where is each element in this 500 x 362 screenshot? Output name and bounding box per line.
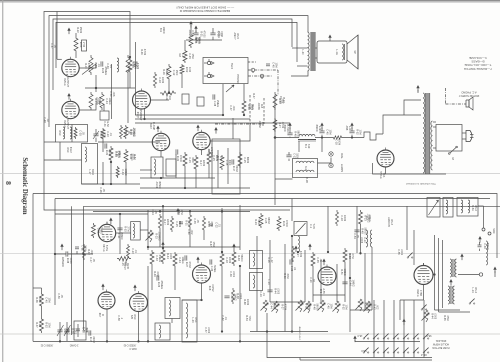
- arrow ant: [479, 238, 481, 243]
- svg-text:98-0: 98-0: [426, 334, 432, 337]
- svg-text:OB-3: OB-3: [420, 353, 426, 356]
- svg-text:.27MEG: .27MEG: [132, 127, 135, 136]
- wire bus top line 1: [44, 12, 290, 211]
- wire: [354, 340, 356, 342]
- svg-text:1MEG: 1MEG: [198, 36, 201, 43]
- B+ arrow: [321, 124, 323, 129]
- remote dash-dot wire 2: [248, 75, 272, 77]
- svg-text:C-57: C-57: [204, 327, 207, 333]
- svg-text:47000: 47000: [130, 154, 133, 162]
- wire: [239, 266, 241, 341]
- svg-text:.0005: .0005: [169, 253, 172, 260]
- svg-text:JMW50? 41-0: JMW50? 41-0: [298, 326, 300, 340]
- B+ arrow pushbutton: [403, 320, 405, 325]
- resistor R-18: [160, 91, 176, 95]
- svg-text:C-58: C-58: [117, 315, 120, 321]
- svg-text:6J5: 6J5: [130, 315, 133, 320]
- svg-text:R-48: R-48: [313, 304, 316, 310]
- svg-text:R-24: R-24: [254, 219, 257, 225]
- svg-text:R-50: R-50: [283, 273, 286, 279]
- output terminal right: [479, 273, 482, 276]
- osc coil can lower 2: [182, 300, 197, 342]
- svg-text:Schematic Diagram: Schematic Diagram: [21, 157, 28, 215]
- svg-text:470M: 470M: [188, 261, 191, 267]
- junction: [434, 274, 436, 276]
- junction: [102, 183, 104, 185]
- wire: [292, 47, 308, 49]
- svg-text:PHONO: PHONO: [236, 74, 239, 83]
- junction: [106, 341, 108, 343]
- svg-text:1MEG: 1MEG: [343, 268, 346, 275]
- tone control enclosure box: [212, 139, 240, 194]
- svg-text:TUN: TUN: [312, 223, 315, 228]
- resistor R-45: [126, 55, 130, 75]
- svg-text:220M: 220M: [166, 219, 169, 225]
- wire: [171, 319, 173, 324]
- wire: [297, 65, 308, 67]
- resistor R-63: [220, 252, 224, 268]
- capacitor C-77: [267, 289, 272, 291]
- dial lamp I1: [329, 152, 333, 156]
- svg-text:C-14: C-14: [151, 209, 154, 215]
- wire: [291, 199, 293, 211]
- oscillator padder box: [74, 321, 86, 340]
- fold line 1: [0, 173, 500, 175]
- svg-text:.1M: .1M: [38, 323, 41, 327]
- dial lamp I2: [329, 163, 333, 167]
- remote dash-dot wire: [248, 69, 278, 71]
- svg-text:.01: .01: [224, 316, 227, 320]
- svg-text:.01: .01: [217, 223, 220, 227]
- wire rectifier to bus: [385, 167, 387, 174]
- pot R-9: [298, 300, 302, 312]
- junction: [327, 251, 329, 253]
- junction: [221, 331, 223, 333]
- svg-text:R-17: R-17: [199, 160, 202, 166]
- svg-text:C-45: C-45: [188, 53, 191, 59]
- svg-text:.0001: .0001: [400, 249, 403, 256]
- B+ arrow: [190, 23, 192, 28]
- electrolytic capacitor: [82, 40, 87, 51]
- svg-text:C-19: C-19: [259, 291, 262, 297]
- svg-text:.004: .004: [232, 106, 235, 111]
- svg-text:C-37: C-37: [229, 105, 232, 111]
- capacitor C10: [286, 154, 291, 156]
- trimmer capacitor: [95, 129, 97, 134]
- capacitor C-71: [104, 143, 106, 148]
- svg-text:MOTOR SUPPLY: MOTOR SUPPLY: [459, 94, 480, 98]
- junction: [201, 299, 203, 301]
- svg-text:6A8: 6A8: [208, 286, 211, 291]
- phono input box: [203, 58, 248, 84]
- wire: [125, 164, 127, 184]
- svg-text:4.7: 4.7: [248, 105, 251, 109]
- speaker frame: [317, 41, 347, 63]
- wire: [364, 253, 366, 310]
- capacitor C17: [64, 329, 69, 331]
- junction: [144, 118, 146, 120]
- svg-text:C-35: C-35: [316, 257, 319, 263]
- svg-text:15M: 15M: [191, 54, 194, 59]
- junction: [168, 92, 170, 94]
- capacitor C-40: [184, 255, 186, 260]
- svg-text:R-42: R-42: [165, 95, 168, 101]
- svg-text:REMOTE CONNECTION MARKED R: REMOTE CONNECTION MARKED R: [179, 9, 230, 13]
- capacitor C7: [287, 132, 292, 134]
- wire rectifier filament: [373, 163, 446, 174]
- capacitor C-84: [209, 223, 213, 225]
- switch S2 wafer: [421, 309, 422, 310]
- osc coil can lower: [165, 298, 180, 319]
- grid cap wire: [423, 263, 425, 266]
- tube V7 6A8 converter: [193, 265, 211, 283]
- ant coil can lower: [155, 323, 170, 340]
- wire: [232, 118, 234, 139]
- svg-text:25M: 25M: [446, 316, 449, 321]
- svg-text:OS-2: OS-2: [474, 205, 477, 211]
- resistor R-6: [332, 136, 343, 139]
- wire: [304, 250, 306, 302]
- osc coil: [63, 127, 65, 139]
- svg-text:R-27: R-27: [133, 63, 136, 69]
- svg-text:COMB: COMB: [95, 97, 98, 105]
- bottom bus wire: [33, 340, 330, 342]
- svg-text:.05: .05: [92, 258, 95, 262]
- B+ arrow IF: [461, 255, 463, 260]
- svg-text:JWW200: JWW200: [61, 257, 64, 268]
- capacitor C-78: [342, 281, 347, 283]
- svg-text:470M: 470M: [143, 49, 146, 55]
- wire: [144, 109, 146, 120]
- svg-text:R-19: R-19: [84, 63, 87, 69]
- wire: [135, 122, 290, 124]
- wire: [217, 150, 219, 188]
- wire: [267, 313, 432, 358]
- wire: [413, 230, 415, 265]
- B+ arrow IF 2: [450, 281, 452, 286]
- wire: [159, 230, 161, 247]
- svg-text:50M: 50M: [257, 220, 260, 225]
- junction: [95, 87, 97, 89]
- svg-text:.05: .05: [53, 44, 56, 48]
- capacitor C-80: [266, 63, 270, 65]
- svg-text:SP: SP: [353, 50, 356, 54]
- resistor R-39: [180, 64, 184, 75]
- tube V1 6V6-G output: [62, 59, 79, 76]
- svg-text:.002: .002: [90, 250, 93, 255]
- remote R circle 2: [260, 74, 264, 78]
- output transformer T1 primary: [308, 32, 310, 71]
- svg-text:1MFD: 1MFD: [162, 27, 165, 34]
- wire: [79, 104, 96, 110]
- svg-text:.01: .01: [97, 63, 100, 67]
- svg-text:.00025: .00025: [188, 29, 191, 37]
- junction: [291, 331, 293, 333]
- antenna coil far right: [486, 241, 488, 265]
- svg-text:R-65: R-65: [443, 315, 446, 321]
- resistor R-82: [83, 244, 86, 260]
- svg-text:R-8: R-8: [260, 104, 263, 109]
- svg-text:R-52: R-52: [45, 322, 48, 328]
- svg-text:G-52: G-52: [106, 121, 109, 127]
- svg-text:.05: .05: [319, 258, 322, 262]
- capacitor C2: [210, 32, 215, 34]
- svg-text:R-52: R-52: [342, 304, 345, 310]
- svg-text:470M: 470M: [136, 63, 139, 69]
- svg-text:C-45: C-45: [327, 303, 330, 309]
- svg-text:C-28: C-28: [97, 228, 100, 234]
- svg-text:HOLLIS HSFW: HOLLIS HSFW: [432, 342, 449, 345]
- svg-text:L-20: L-20: [301, 49, 304, 55]
- capacitor C7-8: [212, 28, 214, 33]
- resistor R-60: [150, 250, 154, 266]
- svg-text:.00065 C-52: .00065 C-52: [40, 344, 53, 346]
- wire: [98, 141, 160, 143]
- svg-text:T—OFF–ON–TONE: T—OFF–ON–TONE: [465, 63, 492, 67]
- svg-text:R-23: R-23: [155, 233, 158, 239]
- B+ arrow V9: [102, 285, 104, 290]
- svg-text:—·— DASH DOT LINES FOR 485PL O: —·— DASH DOT LINES FOR 485PL ONLY: [176, 6, 234, 10]
- svg-text:MEG: MEG: [251, 104, 254, 110]
- capacitor C-16: [65, 251, 67, 256]
- resistor R-59: [116, 166, 119, 178]
- rectifier tube 5Y3-G: [377, 150, 394, 167]
- svg-text:250M: 250M: [79, 27, 82, 33]
- svg-text:C-55: C-55: [397, 249, 400, 255]
- wire: [162, 206, 164, 248]
- svg-text:15M: 15M: [48, 298, 51, 303]
- svg-text:.25MEG: .25MEG: [160, 280, 163, 289]
- wire: [435, 309, 461, 311]
- svg-text:OUTPUT: OUTPUT: [66, 77, 69, 88]
- svg-text:.5MEG: .5MEG: [158, 254, 161, 262]
- resistor R-37: [40, 317, 44, 333]
- switch S8: [413, 338, 414, 339]
- capacitor C-ant: [479, 242, 481, 245]
- svg-text:B-5A: B-5A: [471, 205, 474, 211]
- svg-text:LAMPS: LAMPS: [340, 164, 343, 173]
- wire: [318, 158, 332, 164]
- resistor R2-B tone: [117, 257, 131, 261]
- capacitor .02 pack: [197, 97, 204, 106]
- svg-text:C-28: C-28: [213, 101, 216, 107]
- coil L8: [296, 170, 314, 172]
- svg-text:C-50: C-50: [109, 91, 112, 97]
- resistor R-36: [40, 292, 44, 308]
- tube V10 6F6 audio: [318, 267, 336, 285]
- wire: [184, 168, 186, 188]
- svg-text:R: R: [261, 76, 263, 80]
- svg-text:R-17: R-17: [163, 219, 166, 225]
- svg-text:C-12: C-12: [172, 70, 175, 76]
- svg-text:L-23: L-23: [191, 317, 194, 323]
- IF transformer can: [151, 157, 163, 178]
- svg-text:V—VOLUME: V—VOLUME: [469, 56, 487, 60]
- capacitor C1: [193, 32, 198, 34]
- svg-text:R-38: R-38: [66, 258, 69, 264]
- svg-text:C-25: C-25: [175, 221, 178, 227]
- svg-text:.002: .002: [190, 230, 193, 235]
- svg-text:.002: .002: [375, 305, 378, 310]
- svg-text:6V6-G: 6V6-G: [63, 78, 66, 85]
- svg-text:OSC: OSC: [66, 147, 69, 153]
- tube V3 6SQ7 det AVC: [133, 91, 151, 109]
- svg-text:R-47: R-47: [252, 93, 255, 99]
- wire: [119, 214, 121, 254]
- junction: [110, 161, 112, 163]
- resistor R-44b: [153, 72, 156, 88]
- switch S15: [413, 352, 414, 353]
- arrow pushbutton row: [354, 337, 356, 342]
- coil: [169, 300, 171, 316]
- wire: [434, 235, 436, 310]
- lower chassis vertical 4: [83, 206, 85, 330]
- resistor R-41 1MEG: [189, 33, 193, 48]
- svg-text:.01: .01: [293, 267, 296, 271]
- power transformer T2 primary winding: [423, 93, 425, 173]
- svg-text:C-4: C-4: [181, 53, 184, 58]
- junction: [95, 87, 97, 89]
- B+ arrow: [351, 124, 353, 129]
- svg-text:L-21: L-21: [117, 233, 120, 239]
- svg-text:30M: 30M: [286, 274, 289, 279]
- svg-text:R-44: R-44: [274, 288, 277, 294]
- svg-text:.05: .05: [127, 130, 130, 134]
- lower chassis border 1: [33, 194, 497, 259]
- tube V2 6V6-G output: [62, 101, 79, 118]
- B+ arrow mid 2: [309, 245, 311, 250]
- resistor R-58: [124, 125, 128, 139]
- wire: [175, 154, 177, 178]
- tuning cap box right: [427, 198, 440, 218]
- svg-text:C-25: C-25: [212, 155, 215, 161]
- wire bus top line 4: [56, 22, 297, 68]
- svg-text:47000: 47000: [179, 155, 182, 163]
- svg-text:C-20: C-20: [309, 277, 312, 283]
- wire: [438, 238, 440, 312]
- svg-text:R-69: R-69: [177, 209, 180, 215]
- B+ arrow: [157, 127, 159, 132]
- AC line box: [436, 125, 462, 152]
- svg-text:R-57: R-57: [133, 154, 136, 160]
- push button mid wire: [355, 341, 420, 343]
- switch S6: [393, 338, 394, 339]
- svg-text:C-35: C-35: [79, 130, 82, 136]
- svg-text:1MEG: 1MEG: [118, 150, 121, 157]
- resistor R-72: [120, 125, 123, 139]
- resistor R-62: [173, 252, 177, 268]
- capacitor C18: [76, 328, 80, 330]
- resistor R-20: [89, 92, 93, 110]
- wire: [147, 210, 149, 250]
- svg-text:C-45: C-45: [326, 129, 329, 135]
- svg-text:S19: S19: [307, 144, 310, 149]
- junction: [138, 341, 140, 343]
- switch S11: [373, 352, 374, 353]
- wire: [312, 268, 314, 302]
- resistor R-56: [124, 149, 128, 164]
- junction: [119, 213, 121, 215]
- wire: [135, 42, 137, 115]
- coil inside can: [154, 159, 156, 175]
- resistor R-34: [194, 155, 198, 171]
- svg-text:10M: 10M: [188, 67, 191, 72]
- wire: [298, 141, 300, 152]
- wire: [356, 206, 358, 253]
- svg-text:10M: 10M: [344, 305, 347, 310]
- switch S10: [363, 352, 364, 353]
- B+ arrow V10: [323, 260, 325, 265]
- svg-text:R-23: R-23: [157, 282, 160, 288]
- B+ arrow enclosure: [215, 129, 217, 134]
- svg-text:R-54: R-54: [245, 315, 248, 321]
- svg-text:L-50: L-50: [82, 327, 85, 333]
- svg-text:A-55: A-55: [322, 288, 325, 294]
- resistor R-13 15000: [273, 92, 277, 110]
- svg-text:680M: 680M: [246, 157, 249, 163]
- svg-text:C-48: C-48: [43, 117, 46, 123]
- svg-text:C-28: C-28: [64, 328, 67, 334]
- svg-text:C-47: C-47: [50, 43, 53, 49]
- wire: [182, 299, 202, 301]
- capacitor C-11: [288, 152, 290, 155]
- svg-text:R2-B: R2-B: [126, 263, 129, 269]
- resistor R-84: [158, 214, 161, 230]
- svg-text:PUSH BUTTON: PUSH BUTTON: [432, 346, 449, 349]
- junction: [266, 331, 268, 333]
- svg-text:R-17: R-17: [89, 337, 92, 343]
- speaker cone: [347, 35, 358, 69]
- svg-text:C-18: C-18: [340, 215, 343, 221]
- wire: [399, 300, 401, 320]
- wire: [85, 87, 135, 89]
- capacitor C-41: [289, 259, 291, 264]
- junction: [274, 137, 276, 139]
- junction: [162, 247, 164, 249]
- switch S16: [423, 352, 424, 353]
- wire: [102, 140, 104, 152]
- wire: [222, 84, 224, 115]
- B+ arrow V1 plate: [68, 29, 70, 34]
- B+ arrow far right: [494, 268, 496, 273]
- wire: [160, 151, 162, 157]
- capacitor C21: [478, 244, 482, 246]
- wire: [313, 294, 345, 296]
- svg-text:.02: .02: [46, 118, 49, 122]
- svg-text:1-O: 1-O: [348, 126, 351, 130]
- tube V5 6SQ7: [193, 132, 210, 149]
- wire: [151, 266, 153, 290]
- tube electrode detail strokes: [0, 0, 1, 1]
- resistor R-22 plate: [74, 36, 78, 53]
- wire: [59, 339, 61, 341]
- wire: [127, 75, 129, 123]
- svg-text:51?G: 51?G: [105, 245, 108, 251]
- resistor R-26: [311, 252, 315, 268]
- svg-text:100M: 100M: [337, 139, 340, 145]
- switch S4 wafer: [407, 257, 408, 258]
- lower chassis border 3: [84, 205, 500, 207]
- svg-text:6-4: 6-4: [304, 166, 307, 170]
- main B+ vertical wire: [274, 95, 276, 205]
- switch S14: [403, 352, 404, 353]
- resistor R-83: [232, 288, 235, 304]
- junction: [360, 253, 362, 255]
- wire: [227, 148, 229, 184]
- coil: [461, 200, 463, 213]
- resistor R-21: [100, 92, 104, 110]
- svg-text:C-1: C-1: [309, 224, 312, 229]
